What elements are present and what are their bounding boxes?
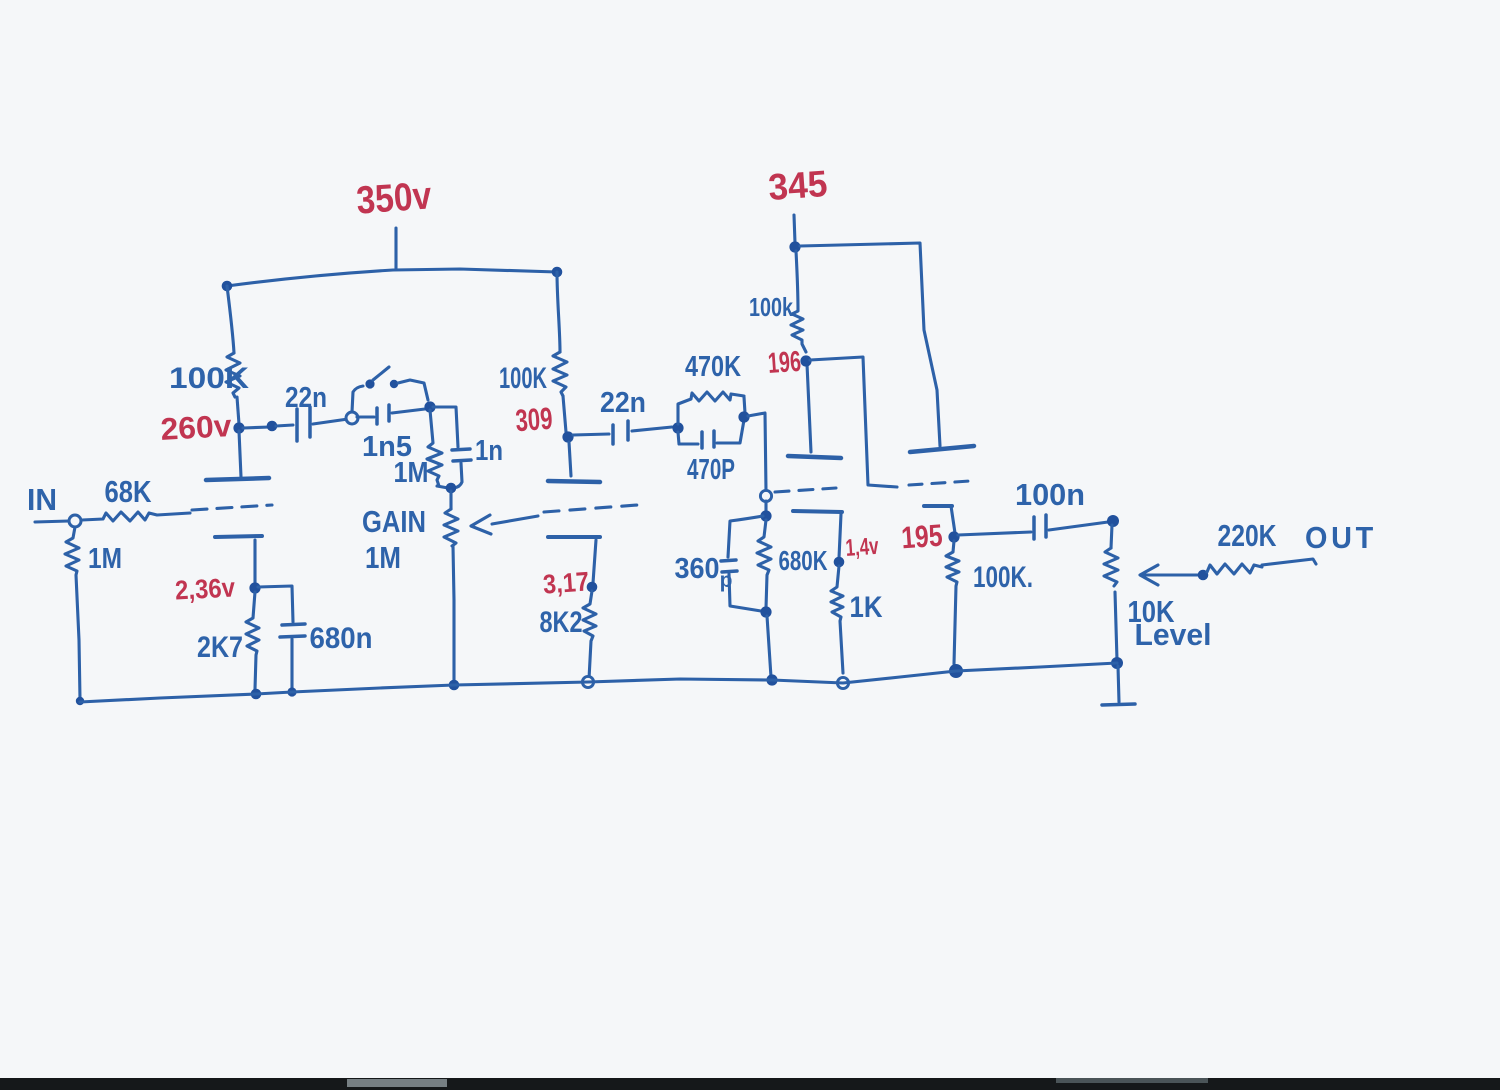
wire 350v top rail	[227, 269, 557, 286]
wire V2a plate lead	[807, 364, 811, 452]
wire	[563, 396, 566, 432]
ground rail	[80, 663, 1117, 702]
svg-text:2K7: 2K7	[197, 631, 243, 664]
wire	[237, 397, 239, 424]
resistor 8K2	[583, 591, 596, 679]
svg-text:195: 195	[900, 518, 943, 556]
node 470 combo left	[672, 422, 683, 433]
wire V1b plate lead	[569, 442, 571, 476]
svg-text:Level: Level	[1135, 617, 1212, 652]
capacitor 470P	[678, 432, 698, 444]
wire 195 to 100n	[958, 532, 1031, 535]
svg-text:100n: 100n	[1015, 477, 1085, 512]
wire V1b cathode lead	[593, 540, 596, 583]
node J1	[424, 401, 435, 412]
switch second contact	[390, 380, 398, 388]
tube V2b grid (dashed)	[909, 481, 970, 485]
node rail 680K	[766, 674, 777, 685]
switch (bright) wire up	[352, 386, 363, 412]
tube V1b cathode	[548, 535, 600, 539]
node rail 100K	[949, 664, 963, 678]
svg-text:360: 360	[675, 553, 720, 585]
wire V1a plate lead	[239, 431, 241, 477]
tube V2a cathode	[793, 511, 842, 512]
tube V1a plate	[206, 478, 269, 480]
capacitor 22n (first coupling)	[276, 425, 293, 426]
switch pivot contact	[365, 379, 374, 388]
wire V2a cathode lead	[839, 514, 841, 558]
wire out	[1262, 559, 1316, 565]
svg-text:1n: 1n	[475, 435, 503, 467]
svg-text:100K: 100K	[499, 362, 547, 395]
node rail right	[552, 267, 563, 278]
node rail 8K2 (open)	[582, 676, 593, 687]
resistor 1M (input)	[65, 527, 80, 699]
tube V1a cathode	[215, 536, 262, 537]
wire to rail	[767, 616, 771, 677]
node 2,36v	[249, 582, 260, 593]
ground	[1118, 666, 1119, 702]
svg-text:3,17: 3,17	[542, 566, 590, 599]
wire 345 stub	[794, 215, 795, 243]
node 309	[562, 431, 573, 442]
tube V1b plate	[548, 481, 600, 482]
node wiper	[1198, 570, 1209, 581]
svg-text:GAIN: GAIN	[362, 504, 426, 539]
switch lever	[373, 367, 389, 380]
node	[267, 421, 278, 432]
node rail 680n	[287, 687, 296, 696]
svg-text:1,4v: 1,4v	[845, 533, 880, 562]
capacitor 22n (second coupling)	[611, 425, 615, 444]
wire V2b cathode lead	[951, 506, 955, 533]
svg-text:1M: 1M	[394, 457, 429, 489]
node switch input	[346, 412, 358, 424]
svg-text:8K2: 8K2	[540, 606, 583, 639]
svg-text:22n: 22n	[600, 387, 646, 419]
tube V2b plate	[910, 446, 974, 452]
svg-text:470P: 470P	[687, 454, 735, 486]
wire	[243, 427, 270, 428]
node rail left	[222, 281, 233, 292]
svg-text:100K: 100K	[169, 362, 249, 395]
svg-text:345: 345	[767, 163, 829, 208]
capacitor 100n	[1032, 517, 1036, 539]
node rail gain	[449, 680, 460, 691]
tube V1b grid (dashed)	[544, 505, 637, 512]
tube V1a grid (dashed)	[192, 505, 272, 510]
potentiometer 10K Level	[1111, 525, 1112, 548]
svg-text:196: 196	[767, 346, 802, 380]
svg-text:220K: 220K	[1218, 518, 1277, 553]
node input (open)	[69, 515, 81, 527]
svg-text:22n: 22n	[285, 382, 327, 414]
resistor 100k (196 feed)	[791, 251, 806, 352]
svg-text:1M: 1M	[88, 543, 122, 575]
node rail corner	[76, 697, 84, 705]
svg-text:p: p	[720, 569, 733, 592]
svg-text:680K: 680K	[779, 545, 828, 576]
wire from switch to J1	[398, 380, 428, 400]
wire V1a cathode lead	[253, 540, 256, 583]
svg-text:100K.: 100K.	[973, 561, 1033, 594]
svg-text:350v: 350v	[355, 174, 433, 222]
resistor 1K	[831, 566, 843, 673]
resistor 2K7	[246, 592, 259, 689]
resistor 100K (V2b cathode)	[946, 541, 959, 664]
svg-text:470K: 470K	[685, 351, 741, 383]
node V2a bias	[760, 510, 771, 521]
resistor 68K	[82, 512, 190, 521]
potentiometer wiper arrow	[492, 516, 538, 524]
svg-text:1M: 1M	[365, 540, 401, 575]
svg-text:680n: 680n	[310, 622, 373, 655]
wire J1 to 1n cap	[433, 407, 458, 447]
node 260v	[233, 422, 244, 433]
wire 350v stub	[394, 228, 397, 268]
node 470 combo right	[738, 411, 749, 422]
svg-text:2,36v: 2,36v	[174, 572, 235, 605]
node rail 2K7	[251, 689, 262, 700]
scanner edge band	[0, 1078, 1500, 1090]
svg-text:260v: 260v	[160, 408, 234, 447]
node 345	[789, 241, 800, 252]
node 196	[800, 355, 811, 366]
node 680K bottom	[760, 606, 771, 617]
svg-text:1K: 1K	[850, 591, 883, 624]
capacitor 680n	[282, 624, 305, 625]
capacitor 1n5	[357, 415, 374, 418]
tube V2b cathode	[924, 504, 952, 508]
potentiometer GAIN 1M	[449, 491, 452, 509]
svg-text:OUT: OUT	[1305, 520, 1377, 555]
node 3,17	[587, 582, 598, 593]
wire grid node down	[764, 501, 767, 513]
potentiometer wiper arrow	[1142, 573, 1199, 576]
wire V1b plate feed	[557, 272, 560, 352]
node 195	[948, 531, 959, 542]
wire to V2a grid	[748, 413, 766, 491]
capacitor 1n	[452, 449, 470, 450]
tube V2a grid (dashed)	[775, 488, 836, 492]
node rail 1K (open)	[837, 677, 848, 688]
svg-text:IN: IN	[27, 482, 57, 517]
resistor 100K (V1a plate load)	[226, 353, 240, 397]
node rail level	[1111, 657, 1123, 669]
resistor 100K (V1b plate load)	[553, 352, 567, 396]
capacitor 360p	[728, 516, 763, 557]
node 100n right	[1107, 515, 1119, 527]
wire 470K right	[744, 397, 745, 413]
wire resistor bottom to node	[437, 486, 448, 488]
svg-text:309: 309	[514, 401, 553, 438]
node V2a grid (open)	[760, 490, 771, 501]
wire 196 to V2b grid	[810, 357, 897, 487]
wire to 680n	[258, 586, 293, 622]
resistor 680K	[757, 520, 771, 608]
resistor 470K	[678, 392, 744, 424]
wire input	[35, 521, 69, 522]
wire 345 to V2b plate	[800, 243, 940, 446]
wire V1a plate feed	[227, 286, 234, 353]
node	[446, 483, 457, 494]
svg-text:100k: 100k	[749, 292, 793, 322]
wire 309 to cap	[573, 434, 609, 435]
tube V2a plate	[788, 456, 841, 458]
svg-text:68K: 68K	[105, 474, 153, 509]
resistor 1M (across gain cap)	[427, 410, 442, 486]
node 1,4v	[834, 557, 845, 568]
resistor 220K	[1207, 564, 1262, 574]
